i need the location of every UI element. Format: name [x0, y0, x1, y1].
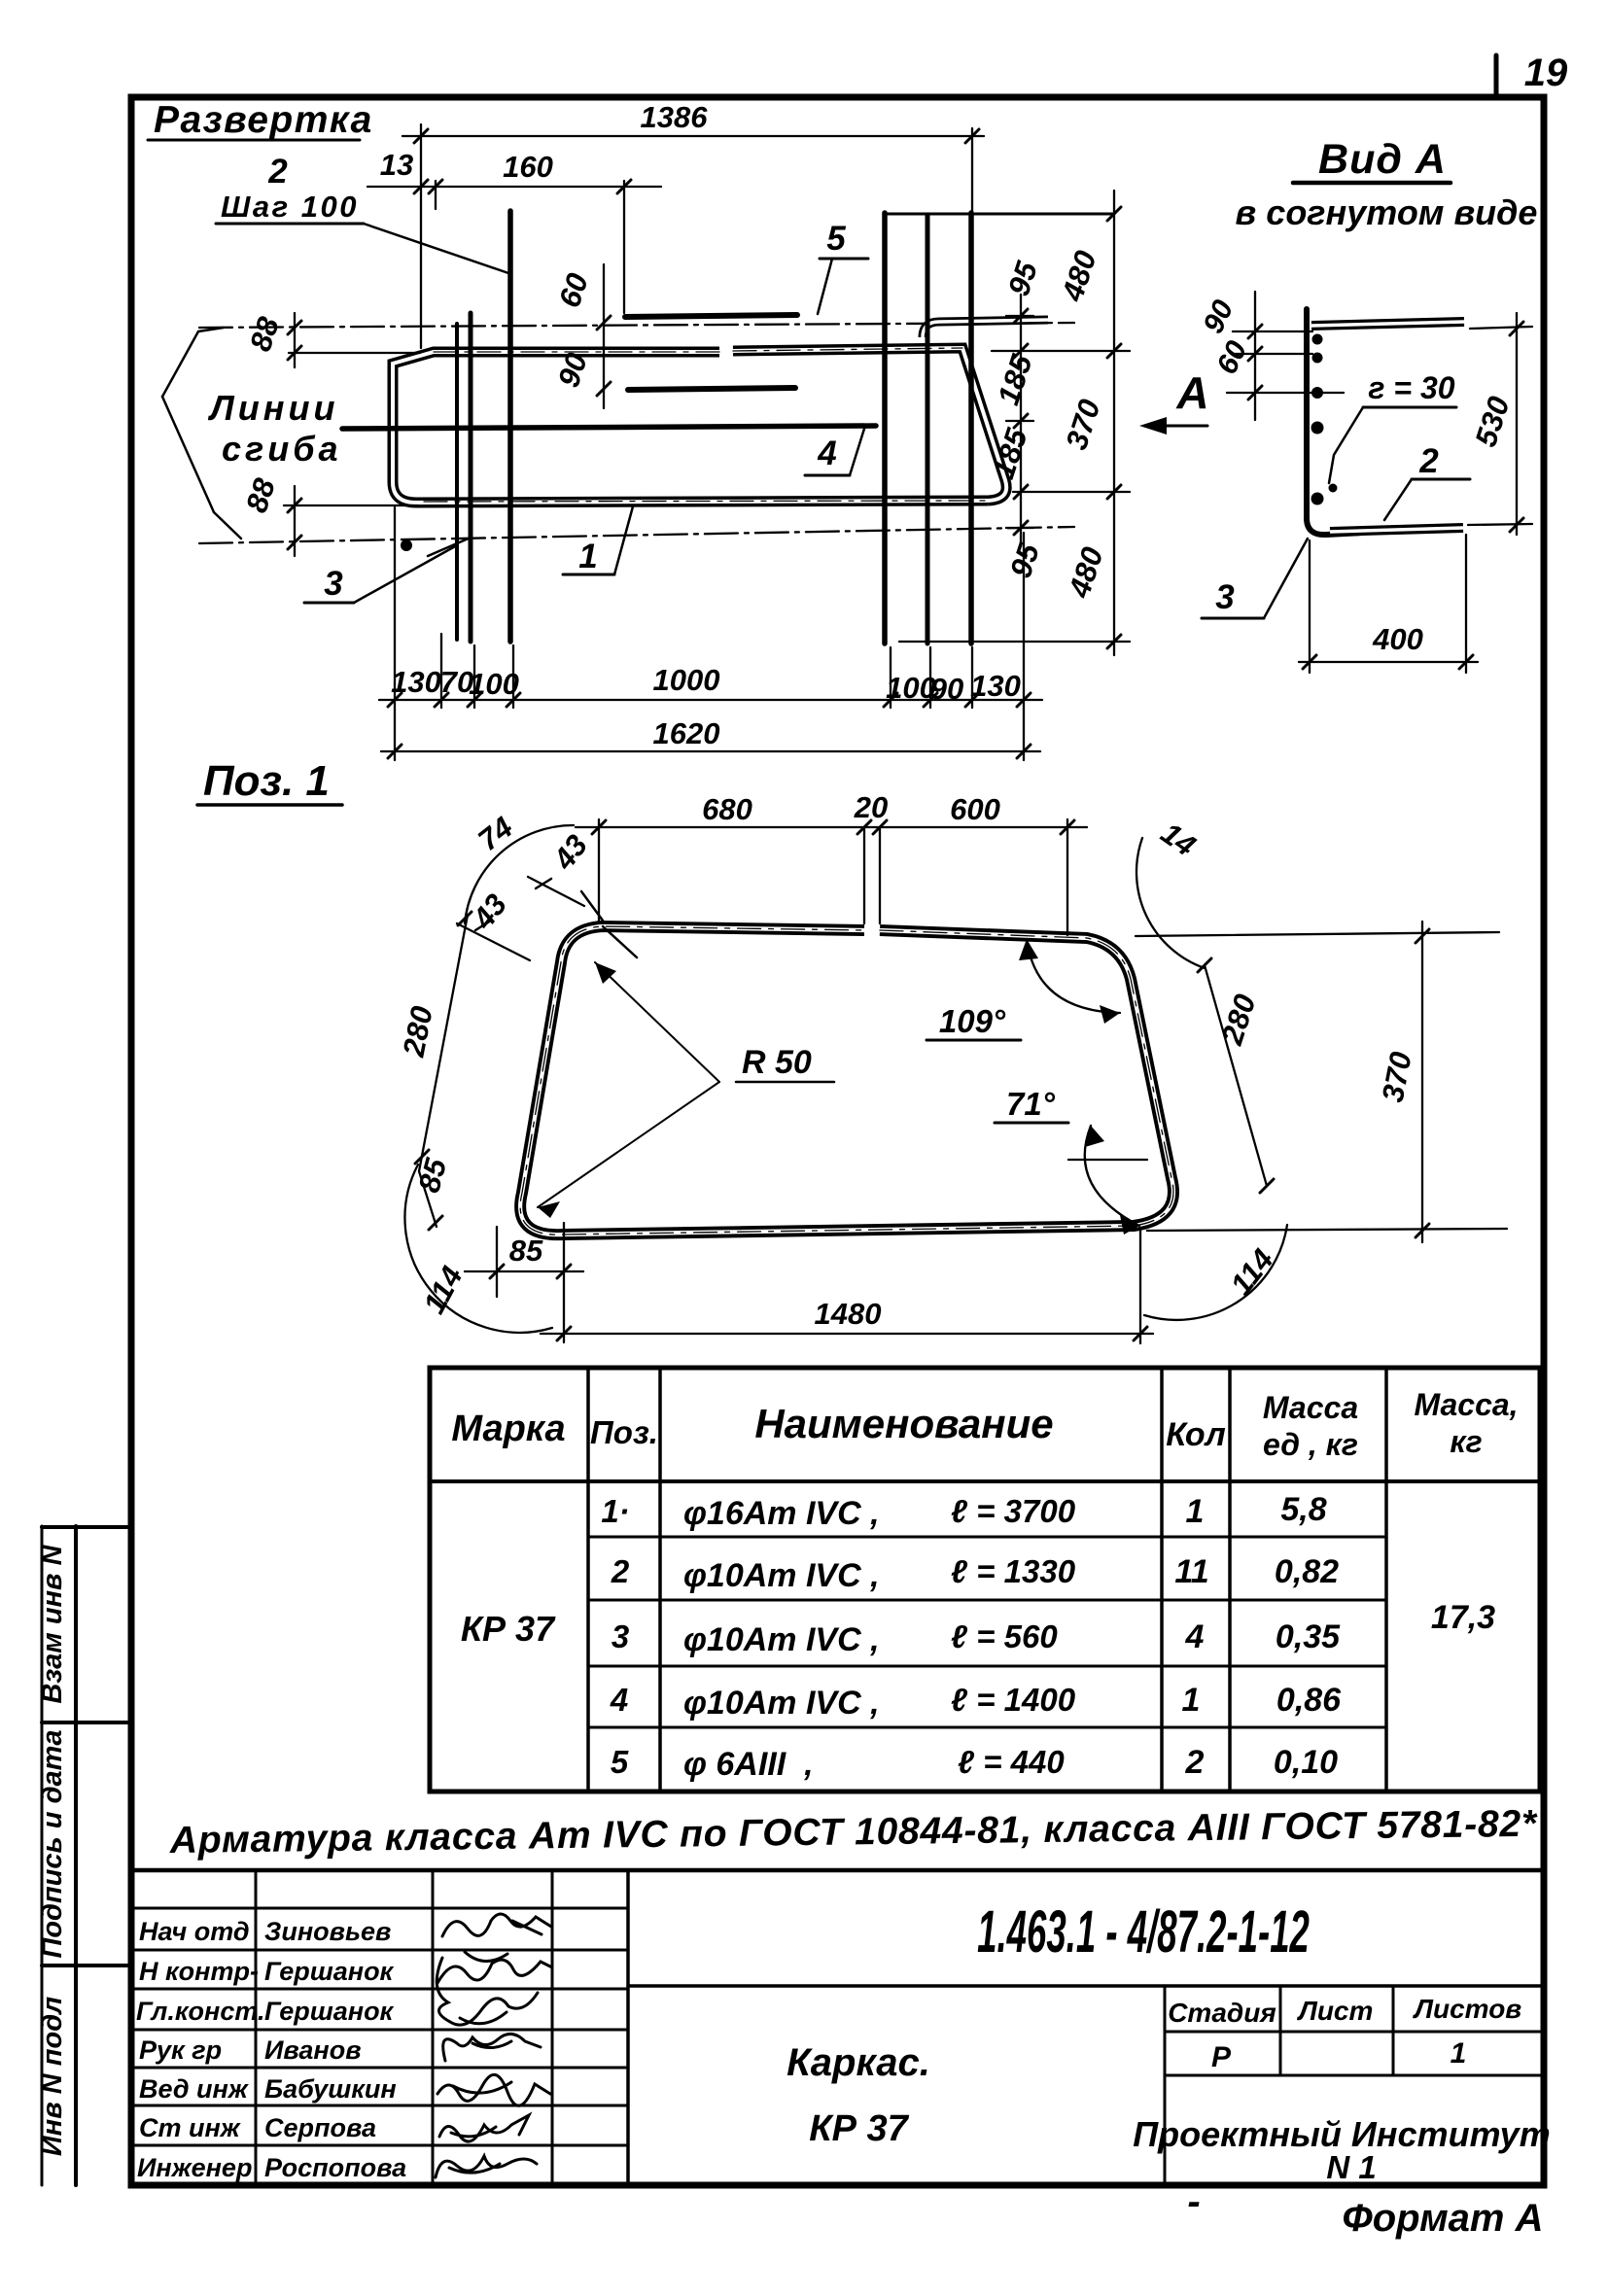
svg-text:-: -: [1187, 2180, 1200, 2223]
rebar section dot left: [401, 539, 412, 551]
bent bar vertical (view A): [1307, 309, 1363, 535]
svg-text:1·: 1·: [601, 1493, 629, 1529]
svg-text:Шаг 100: Шаг 100: [221, 190, 359, 224]
left margin outer line: [41, 1526, 44, 2185]
svg-text:1386: 1386: [641, 100, 709, 134]
svg-text:А: А: [1175, 367, 1208, 418]
svg-text:2: 2: [267, 153, 288, 191]
extension horizontals right: [1006, 315, 1033, 317]
big arc bottom-right: [1144, 1225, 1287, 1320]
svg-text:1: 1: [1182, 1682, 1201, 1719]
svg-text:Вид А: Вид А: [1318, 136, 1447, 183]
svg-text:Стадия: Стадия: [1168, 1998, 1276, 2028]
column line Поз/Наименование: [658, 1368, 662, 1792]
svg-text:3: 3: [612, 1618, 629, 1654]
signature squiggle 1: [442, 1914, 551, 1936]
svg-text:Иванов: Иванов: [264, 2035, 362, 2065]
stage mini table rows: [1165, 2031, 1544, 2034]
svg-text:4: 4: [1185, 1618, 1205, 1655]
svg-text:ℓ = 1330: ℓ = 1330: [951, 1553, 1076, 1589]
svg-text:5: 5: [826, 220, 846, 258]
svg-text:0,35: 0,35: [1276, 1618, 1341, 1655]
svg-text:5,8: 5,8: [1280, 1491, 1326, 1528]
svg-text:Вед инж: Вед инж: [139, 2074, 250, 2104]
signature squiggle 2: [437, 1952, 552, 1983]
underline of Поз. 1: [197, 803, 342, 807]
svg-text:Формат А: Формат А: [1343, 2197, 1544, 2240]
svg-text:φ10Ат IVС ,: φ10Ат IVС ,: [683, 1621, 880, 1658]
underline of Вид А: [1293, 181, 1451, 186]
extension verticals bottom: [394, 507, 396, 760]
stirrup pos2 right a: [882, 213, 888, 644]
signature squiggle 5: [437, 2074, 550, 2105]
signature squiggle 3: [437, 1958, 538, 2025]
right dim line x1146: [1113, 191, 1115, 655]
svg-text:ℓ = 3700: ℓ = 3700: [951, 1493, 1076, 1529]
svg-text:φ10Ат IVС ,: φ10Ат IVС ,: [683, 1557, 880, 1594]
svg-text:100: 100: [469, 667, 519, 701]
svg-text:кг: кг: [1450, 1424, 1482, 1459]
row line 1: [588, 1536, 1386, 1539]
svg-text:Гл.конст.: Гл.конст.: [136, 1997, 265, 2026]
svg-text:Роспопова: Роспопова: [264, 2153, 406, 2182]
svg-text:2: 2: [611, 1553, 630, 1589]
svg-text:11: 11: [1174, 1553, 1208, 1590]
svg-text:85: 85: [509, 1234, 543, 1268]
underline of Развертка: [148, 139, 360, 142]
svg-text:Поз.: Поз.: [590, 1414, 658, 1450]
svg-text:130: 130: [391, 665, 441, 699]
sheet number divider tick top right: [1494, 55, 1499, 97]
svg-text:Гершанок: Гершанок: [264, 1957, 395, 1986]
svg-text:680: 680: [702, 792, 752, 826]
svg-text:19: 19: [1524, 52, 1568, 94]
svg-text:130: 130: [970, 669, 1021, 703]
bar pos4: [342, 426, 876, 429]
left margin inner divider: [74, 1526, 78, 2185]
dim line 1386: [402, 135, 984, 137]
svg-text:160: 160: [503, 150, 553, 184]
stage mini table vertical left: [1164, 1986, 1167, 2185]
big arc top-left: [465, 825, 574, 923]
bar pos1 bent frame (double line trapezoid): [520, 926, 1173, 1235]
margin box divider 1: [42, 1525, 131, 1529]
svg-text:3: 3: [1215, 578, 1235, 616]
svg-text:5: 5: [611, 1744, 629, 1780]
svg-text:N 1: N 1: [1326, 2149, 1376, 2185]
svg-text:ℓ = 440: ℓ = 440: [958, 1744, 1065, 1780]
svg-text:ℓ = 560: ℓ = 560: [951, 1618, 1058, 1654]
bar pos1 development: right part with slant end (double line): [733, 348, 1006, 501]
svg-text:Рук гр: Рук гр: [139, 2035, 222, 2065]
signature row lines: [131, 1908, 628, 2145]
dim 400: [1299, 661, 1478, 663]
bar pos1 development: left part with hook (double line): [393, 352, 988, 503]
row line 3: [588, 1665, 1386, 1668]
top dim line 680 20 600: [576, 826, 1087, 828]
svg-text:Листов: Листов: [1413, 1994, 1522, 2024]
bar pos5 upper: [625, 315, 797, 317]
centerline of bent frame (dash-dot): [520, 926, 1173, 1235]
stirrup pos2 right b: [926, 216, 930, 644]
title block col line 2: [432, 1870, 435, 2185]
svg-text:Бабушкин: Бабушкин: [264, 2074, 397, 2104]
svg-text:3: 3: [324, 565, 343, 603]
bar pos3 top-right piece (double line): [923, 320, 1048, 337]
stirrup pos2 left b: [469, 313, 473, 642]
svg-text:Ст инж: Ст инж: [139, 2113, 242, 2142]
svg-text:Зиновьев: Зиновьев: [264, 1917, 391, 1946]
bent bar top flange (double line): [1311, 322, 1464, 326]
svg-text:Марка: Марка: [451, 1409, 565, 1449]
svg-text:г = 30: г = 30: [1368, 370, 1454, 405]
parts table outer frame: [430, 1368, 1540, 1792]
stirrup pos2 left c: [507, 211, 513, 642]
svg-text:71°: 71°: [1006, 1086, 1056, 1122]
svg-text:Серпова: Серпова: [264, 2113, 376, 2142]
fold line 2 (dash-dot): [199, 527, 1074, 543]
svg-text:Наименование: Наименование: [754, 1401, 1053, 1446]
big arc top-right: [1136, 838, 1205, 968]
page border frame: [131, 97, 1544, 2185]
svg-text:17,3: 17,3: [1431, 1599, 1495, 1636]
stirrup pos3 left a: [455, 324, 459, 640]
svg-text:R 50: R 50: [742, 1044, 812, 1081]
svg-text:Инженер: Инженер: [137, 2153, 252, 2182]
title block col line 3: [551, 1870, 554, 2185]
svg-text:600: 600: [950, 792, 1000, 826]
signature squiggle 6: [439, 2115, 529, 2141]
svg-text:сгиба: сгиба: [222, 429, 342, 469]
svg-text:2: 2: [1418, 442, 1439, 480]
svg-text:Лист: Лист: [1297, 1996, 1374, 2026]
svg-text:90: 90: [930, 672, 963, 706]
stage mini table verticals: [1279, 1986, 1282, 2075]
bent bar bottom flange (double line): [1330, 528, 1463, 532]
svg-text:φ16Ат IVС ,: φ16Ат IVС ,: [683, 1495, 880, 1532]
svg-text:100: 100: [886, 671, 936, 705]
dim line 280 left: [419, 915, 468, 1171]
title block col line 1: [255, 1870, 258, 2185]
svg-text:1: 1: [1186, 1493, 1205, 1530]
signature squiggle 7: [436, 2156, 537, 2177]
column line Марка/Поз: [586, 1368, 590, 1792]
svg-text:КР 37: КР 37: [809, 2108, 909, 2149]
svg-text:Н контр-: Н контр-: [139, 1957, 259, 1986]
svg-text:0,10: 0,10: [1274, 1744, 1338, 1781]
centerline of pos1 development (dash-dot): [424, 348, 988, 502]
svg-text:φ10Ат IVС ,: φ10Ат IVС ,: [683, 1685, 880, 1722]
svg-text:КР 37: КР 37: [461, 1609, 556, 1649]
svg-text:Инв N подл: Инв N подл: [37, 1997, 68, 2156]
svg-text:φ 6АIII ,: φ 6АIII ,: [683, 1746, 814, 1783]
svg-text:4: 4: [817, 435, 836, 472]
bar pos5 lower: [628, 388, 795, 390]
svg-text:в согнутом виде: в согнутом виде: [1236, 192, 1538, 232]
dim 280 right: [1205, 965, 1267, 1186]
svg-text:Взам инв N: Взам инв N: [37, 1544, 68, 1703]
svg-text:Линии: Линии: [207, 388, 338, 428]
big arc bottom-left: [404, 1165, 552, 1333]
dim 85 left: [419, 1171, 437, 1227]
dim 1480: [541, 1333, 1153, 1335]
svg-text:Подпись и дата: Подпись и дата: [37, 1729, 68, 1958]
signature squiggle 4: [443, 2034, 541, 2061]
svg-text:ℓ = 1400: ℓ = 1400: [951, 1682, 1076, 1718]
small dim lines 43: [528, 877, 584, 906]
svg-text:Нач отд: Нач отд: [139, 1917, 250, 1946]
svg-text:Кол: Кол: [1166, 1416, 1226, 1453]
svg-text:109°: 109°: [939, 1003, 1006, 1039]
margin box divider 3: [42, 1964, 131, 1967]
rebar section dots: [1312, 334, 1323, 345]
extension verticals top: [598, 819, 600, 922]
dim 530: [1516, 313, 1518, 535]
stirrup top bend line right: [885, 213, 1114, 216]
dim 370 right: [1421, 922, 1423, 1242]
row line 2: [588, 1599, 1386, 1602]
svg-text:0,82: 0,82: [1275, 1553, 1339, 1590]
column line Наименование/Кол: [1160, 1368, 1164, 1792]
header bottom line: [430, 1479, 1540, 1483]
margin box divider 2: [42, 1721, 131, 1724]
title block col line 4: [626, 1870, 630, 2185]
fold line 1 (dash-dot): [199, 323, 1074, 328]
svg-text:1620: 1620: [653, 716, 720, 750]
svg-text:Каркас.: Каркас.: [787, 2041, 930, 2084]
svg-text:Масса,: Масса,: [1414, 1387, 1518, 1422]
svg-text:1480: 1480: [815, 1297, 882, 1331]
right dim stack line x1050: [1020, 295, 1022, 546]
row line 4: [588, 1726, 1386, 1729]
svg-text:4: 4: [610, 1682, 628, 1718]
column line Кол/Масса ед: [1228, 1368, 1232, 1792]
bottom dim line 130 70 100 1000 100 90 130: [379, 699, 1042, 701]
svg-text:Р: Р: [1211, 2041, 1232, 2073]
dim line 13 / 160: [367, 186, 661, 188]
svg-text:1.463.1 - 4/87.2-1-12: 1.463.1 - 4/87.2-1-12: [977, 1897, 1310, 1965]
svg-text:400: 400: [1372, 622, 1423, 656]
svg-text:ед , кг: ед , кг: [1263, 1427, 1358, 1462]
svg-text:Масса: Масса: [1263, 1390, 1358, 1425]
svg-text:Развертка: Развертка: [154, 99, 373, 141]
svg-text:Проектный Институт: Проектный Институт: [1133, 2114, 1550, 2154]
dim 85 bottom: [465, 1270, 583, 1272]
stirrup pos2 right c: [968, 213, 974, 644]
svg-text:1: 1: [1451, 2037, 1467, 2070]
svg-text:1000: 1000: [653, 663, 720, 697]
svg-text:2: 2: [1185, 1744, 1205, 1781]
svg-text:1: 1: [578, 538, 597, 575]
svg-text:Гершанок: Гершанок: [264, 1997, 395, 2026]
svg-text:Поз. 1: Поз. 1: [203, 757, 330, 805]
svg-text:13: 13: [380, 148, 413, 182]
column line Масса ед/Масса: [1384, 1368, 1388, 1792]
bottom dim line 1620: [381, 750, 1040, 752]
doc number cell bottom: [628, 1984, 1544, 1988]
title block top line: [131, 1868, 1544, 1873]
svg-text:0,86: 0,86: [1276, 1682, 1342, 1719]
extension verticals top dims: [420, 124, 422, 348]
svg-text:20: 20: [854, 790, 888, 824]
